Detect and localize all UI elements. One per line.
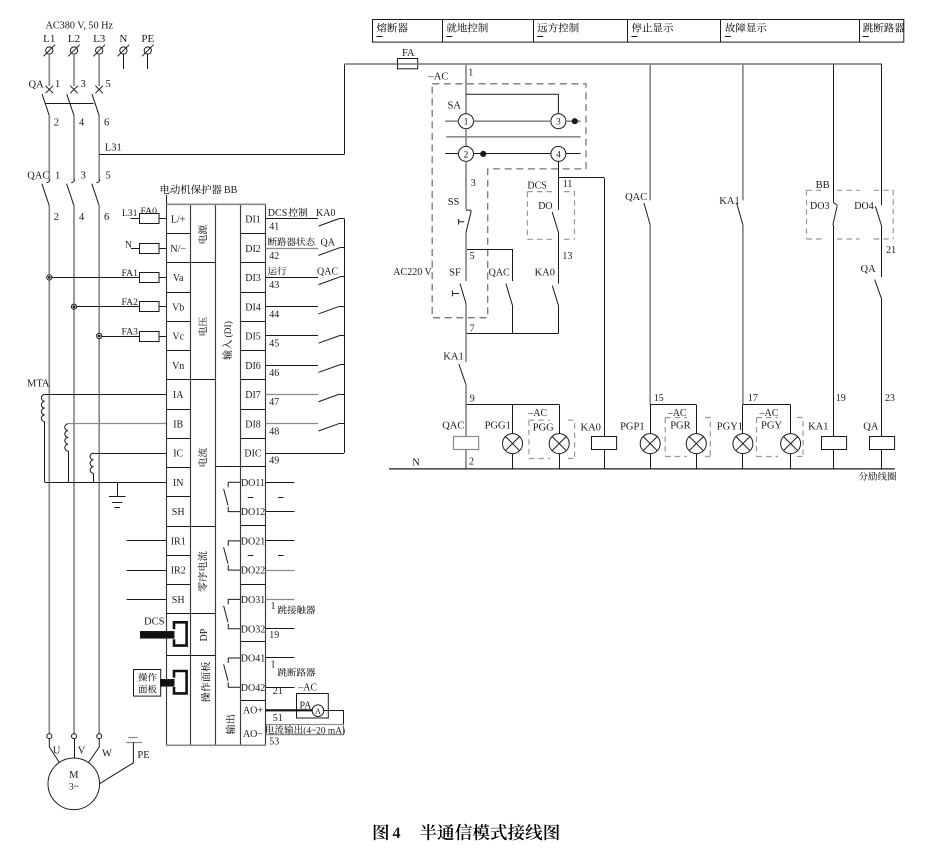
wire L31 riser to fuse FA [344, 64, 346, 154]
relay contact DO31-DO32 [224, 599, 241, 628]
svg-text:L2: L2 [68, 33, 80, 45]
svg-text:DO11: DO11 [241, 478, 265, 489]
svg-text:2: 2 [54, 118, 59, 129]
svg-text:17: 17 [748, 393, 758, 404]
svg-text:W: W [102, 749, 112, 760]
wire DI8 [266, 423, 319, 425]
wire QA contact to coil [881, 299, 883, 436]
SA contact circle 1 [459, 114, 474, 129]
SA linkage line [446, 136, 580, 138]
svg-text:PGG: PGG [533, 423, 554, 434]
wire DI2 [266, 248, 319, 250]
svg-text:AO−: AO− [243, 729, 263, 740]
svg-text:SH: SH [172, 595, 185, 606]
QA pole blade 5-6 [92, 94, 99, 116]
svg-text:45: 45 [269, 339, 279, 350]
svg-text:L3: L3 [93, 33, 106, 45]
svg-text:DI8: DI8 [245, 419, 261, 430]
svg-text:BB: BB [224, 185, 238, 196]
dashed box PGG [529, 420, 575, 458]
SA row1 wire [445, 120, 458, 122]
svg-text:48: 48 [269, 426, 279, 437]
wire col1 SA2 to SS [465, 161, 467, 209]
wire between SA poles [465, 129, 467, 147]
coil QAC [454, 437, 479, 450]
svg-text:IR2: IR2 [171, 566, 186, 577]
switch blade DI6 [319, 365, 340, 373]
wire DO3 to KA1 coil [833, 225, 835, 437]
svg-text:IA: IA [173, 390, 184, 401]
wire QA coil to N [881, 450, 883, 469]
wire to node 17 [742, 225, 744, 405]
dashed box BB DO3/DO4 [807, 190, 894, 239]
QA pole blade 1-2 [42, 94, 49, 116]
header cell label 停止显示 [632, 23, 642, 33]
svg-text:AC220 V: AC220 V [393, 267, 432, 278]
wire SA-4 down [558, 161, 560, 210]
wire PE lead [100, 742, 134, 784]
wire L3 QA to QAC [98, 116, 100, 181]
wire PA to AO- loop [324, 710, 344, 712]
svg-text:DI1: DI1 [245, 215, 261, 226]
wire KA0 coil to N [604, 450, 606, 469]
contact QAC blade [644, 203, 650, 225]
switch blade DI1 [319, 218, 340, 226]
ground symbol on IN [117, 482, 119, 496]
label 分励线圈 [859, 472, 868, 481]
wire phase C down to motor [98, 206, 100, 734]
svg-text:41: 41 [269, 222, 279, 233]
svg-text:L1: L1 [43, 33, 55, 45]
svg-text:–AC: –AC [297, 682, 317, 693]
CT A winding [41, 395, 44, 422]
svg-text:3: 3 [81, 171, 86, 182]
svg-text:SF: SF [449, 267, 461, 278]
switch blade DI8 [319, 423, 340, 431]
svg-text:Vn: Vn [172, 361, 184, 372]
svg-text:PGR: PGR [670, 421, 690, 432]
SA contact circle 4 [551, 146, 566, 161]
header cell label 跳断路器 [863, 23, 873, 33]
svg-text:V: V [78, 746, 86, 757]
svg-text:21: 21 [886, 245, 896, 256]
lamp PGR [696, 405, 698, 434]
wire KA1 coil to N [833, 450, 835, 469]
contact QAC branch wire [512, 249, 514, 281]
wire U lead [49, 739, 59, 763]
wire QAC coil to N [465, 450, 467, 469]
svg-text:DO3: DO3 [810, 201, 829, 212]
block outline top [166, 203, 265, 205]
svg-text:1: 1 [55, 171, 60, 182]
svg-text:DCS: DCS [527, 180, 546, 191]
svg-text:QAC: QAC [489, 267, 510, 278]
SA link line contacts 1-3 [466, 94, 558, 113]
svg-text:FA3: FA3 [122, 327, 139, 338]
svg-text:L/+: L/+ [171, 215, 186, 226]
svg-text:11: 11 [563, 179, 573, 190]
ammeter A [312, 705, 324, 717]
wire DO12 stub [266, 511, 295, 513]
lamp PGY [790, 405, 792, 434]
CT B winding [65, 424, 68, 451]
svg-text:DP: DP [199, 628, 210, 641]
SA row2 wire [445, 153, 458, 155]
svg-text:KA1: KA1 [443, 352, 463, 363]
wire V lead [74, 739, 76, 758]
svg-text:6: 6 [104, 118, 109, 129]
svg-text:PGP1: PGP1 [620, 422, 645, 433]
svg-text:4: 4 [393, 825, 401, 842]
svg-text:N: N [125, 239, 132, 250]
block outline verticals [166, 204, 168, 745]
tap node on phase C [97, 333, 102, 338]
column BB DO3: wire from bus [833, 64, 835, 203]
QAC fixed contact arc [96, 179, 99, 182]
wire L3 drop to QA [98, 54, 100, 86]
svg-text:DI5: DI5 [245, 332, 261, 343]
svg-text:–AC: –AC [428, 71, 449, 82]
label strip separators [190, 262, 215, 264]
lamp PGY1 [742, 405, 744, 434]
header cell label 远方控制 [538, 23, 548, 32]
wire DO22 stub [266, 570, 295, 572]
wire DO21 stub [266, 540, 295, 542]
wire L1 drop to QA [48, 54, 50, 86]
coil KA0 [592, 437, 617, 450]
terminal L1 (circle-slash) [46, 47, 53, 54]
svg-text:DCS: DCS [144, 617, 165, 628]
svg-text:N/−: N/− [170, 244, 186, 255]
vertical label 电源 [198, 235, 207, 243]
wire CT A secondary to IA [45, 394, 167, 396]
svg-text:42: 42 [269, 251, 279, 262]
tap node on phase A [47, 275, 52, 280]
wire DI3 [266, 277, 319, 279]
dashed box PGR [665, 418, 710, 457]
svg-text:AC380 V, 50 Hz: AC380 V, 50 Hz [46, 21, 114, 32]
motor terminal W [97, 734, 102, 739]
contact KA0 blade [552, 286, 558, 306]
vertical label 输出 [226, 725, 235, 735]
label 跳断路器 [278, 668, 287, 677]
wire DO to node13 [558, 233, 560, 284]
terminal L2 [70, 47, 77, 54]
QA pole contact X pin 3 [70, 86, 78, 94]
vertical label 操作面板 [201, 693, 210, 703]
svg-text:MTA: MTA [27, 379, 50, 390]
wire SF section [465, 249, 467, 281]
node 5 wire [466, 249, 512, 251]
CT C winding [90, 453, 93, 473]
svg-text:DI7: DI7 [245, 390, 261, 401]
contact DO (DCS) blade [552, 212, 558, 233]
wire CT C secondary return [93, 473, 95, 482]
motor protector block BB title 电动机保护器 BB [161, 184, 170, 193]
tap node on phase B [71, 304, 76, 309]
svg-text:AO+: AO+ [243, 705, 263, 716]
contact QA blade [875, 280, 882, 300]
svg-text:1: 1 [468, 68, 473, 79]
vertical label 零序电流 [198, 582, 207, 591]
relay contact DO41-DO42 [224, 658, 241, 687]
svg-text:IB: IB [173, 419, 183, 430]
svg-text:QA: QA [29, 79, 45, 90]
svg-text:5: 5 [470, 251, 475, 262]
wire to node 15 [649, 225, 651, 405]
contact KA1 blade [459, 364, 466, 384]
block title tick [166, 195, 168, 205]
SA contact circle 2 [459, 146, 474, 161]
wire L31 horizontal [99, 154, 344, 156]
svg-text:KA1: KA1 [719, 196, 739, 207]
svg-text:PGY: PGY [761, 421, 782, 432]
wire DI5 [266, 335, 319, 337]
wire DO42 stub [266, 687, 295, 689]
left section separators DP/panel [166, 613, 215, 615]
svg-text:1: 1 [271, 601, 276, 612]
svg-text:Vc: Vc [172, 332, 184, 343]
left terminal separators [166, 233, 190, 235]
svg-text:DI3: DI3 [245, 273, 261, 284]
svg-text:1: 1 [271, 659, 276, 670]
svg-text:49: 49 [269, 456, 279, 467]
svg-text:PE: PE [137, 750, 149, 761]
DI3 function label [268, 267, 277, 275]
svg-text:4: 4 [79, 212, 85, 223]
QA pole contact X pin 1 [46, 86, 54, 94]
QAC pole blade [92, 184, 99, 206]
svg-text:N: N [119, 33, 127, 45]
pushbutton SF blade [460, 284, 466, 305]
svg-text:21: 21 [273, 686, 283, 697]
svg-text:DO42: DO42 [241, 683, 265, 694]
svg-text:1: 1 [464, 118, 469, 128]
wire CT A secondary return [44, 422, 46, 483]
svg-text:44: 44 [269, 309, 279, 320]
wire CT C secondary to IC [94, 453, 167, 455]
column DO4/QA: wire from bus [881, 64, 883, 205]
wire L2 drop to QA [73, 54, 75, 86]
wire column1 bus to SA [465, 64, 467, 114]
terminal PE [144, 47, 151, 54]
svg-text:13: 13 [562, 251, 572, 262]
wire DO11 stub [266, 482, 295, 484]
svg-text:FA: FA [402, 48, 415, 59]
svg-text:DCS: DCS [268, 208, 287, 219]
wire AO+ to PA [266, 709, 313, 711]
junction dot right of contact 2 [481, 151, 486, 156]
trip coil QA [870, 437, 895, 450]
svg-text:9: 9 [470, 394, 475, 405]
wire IN bus [45, 482, 167, 484]
svg-text:QAC: QAC [27, 171, 49, 182]
node 17 wire [743, 404, 791, 406]
vertical label 输入(DI) [222, 350, 231, 360]
svg-text:PGY1: PGY1 [717, 422, 743, 433]
node 7 wire [466, 333, 559, 335]
node 9 wire [466, 404, 559, 406]
wire SH stub [127, 599, 167, 601]
svg-text:QAC: QAC [625, 192, 647, 203]
motor M 3~ [48, 758, 100, 810]
header cell label 故障显示 [725, 23, 735, 33]
wire PGG1 drop [512, 405, 514, 434]
wire to QAC coil [465, 405, 467, 437]
wire KA0 coil feed [604, 178, 606, 437]
svg-text:N: N [412, 458, 420, 469]
wire DO31 stub [266, 599, 295, 601]
wire CT B secondary to IB [68, 423, 166, 425]
polarity dashes DO11/DO12 [248, 497, 254, 499]
polarity dashes DO21/DO22 [248, 555, 254, 557]
column QAC display: wire from bus [649, 64, 651, 200]
wire DO4 to QA contact [881, 227, 883, 278]
svg-text:19: 19 [836, 393, 846, 404]
terminal L3 [96, 47, 103, 54]
svg-text:IR1: IR1 [171, 536, 186, 547]
wire DI4 [266, 306, 319, 308]
svg-text:15: 15 [654, 393, 664, 404]
wire DO32 stub [266, 628, 295, 630]
svg-text:–AC: –AC [527, 408, 547, 419]
node 15 wire [650, 404, 696, 406]
svg-text:SH: SH [172, 507, 185, 518]
svg-text:FA0: FA0 [141, 206, 158, 217]
relay contact DO21-DO22 [224, 541, 241, 570]
svg-text:5: 5 [106, 79, 111, 90]
cabinet boundary dashed (AC220V local control) [432, 84, 586, 318]
svg-text:Va: Va [173, 273, 184, 284]
svg-text:DO22: DO22 [241, 566, 265, 577]
wire SF to node7 [465, 305, 467, 334]
svg-text:4: 4 [79, 118, 85, 129]
contact QAC blade [506, 284, 512, 305]
input section separator [215, 466, 240, 468]
DI2 function label [268, 237, 277, 246]
svg-text:5: 5 [106, 171, 111, 182]
vertical label 电流 [198, 458, 207, 466]
QAC pole blade [42, 184, 49, 206]
svg-text:KA0: KA0 [535, 267, 555, 278]
svg-text:(DI): (DI) [223, 321, 234, 337]
svg-text:3: 3 [471, 178, 476, 189]
label 跳接触器 [278, 605, 287, 614]
switch blade DI5 [319, 335, 340, 343]
svg-text:51: 51 [273, 713, 283, 724]
svg-text:PGG1: PGG1 [485, 421, 511, 432]
svg-text:Vb: Vb [172, 302, 184, 313]
junction dot right of contact 3 [572, 119, 577, 124]
svg-text:KA0: KA0 [316, 208, 335, 219]
column KA1 display: wire from bus [742, 64, 744, 200]
svg-text:4: 4 [556, 150, 561, 160]
svg-text:IC: IC [173, 449, 183, 460]
svg-text:2: 2 [464, 150, 469, 160]
svg-text:M: M [69, 770, 79, 781]
motor terminal U [47, 734, 52, 739]
wire CT B secondary return [68, 451, 70, 482]
svg-text:2: 2 [469, 457, 474, 468]
svg-text:DI2: DI2 [245, 244, 261, 255]
wire DI6 [266, 365, 319, 367]
svg-text:IN: IN [173, 478, 184, 489]
svg-text:3~: 3~ [69, 783, 79, 793]
wire DI1 [266, 218, 319, 220]
svg-text:DO41: DO41 [241, 654, 265, 665]
header table: annotation strip [373, 20, 904, 43]
svg-text:53: 53 [269, 736, 279, 747]
svg-text:1: 1 [55, 79, 60, 90]
SS actuator [459, 219, 465, 225]
svg-text:SA: SA [448, 100, 462, 111]
switch blade DI3 [319, 277, 340, 285]
N bus [389, 468, 895, 470]
svg-text:PE: PE [141, 33, 154, 45]
control bus from L31 [344, 63, 881, 65]
SA contact circle 3 [551, 114, 566, 129]
header cell label 熔断器 [377, 23, 387, 33]
svg-text:DI4: DI4 [245, 302, 261, 313]
contact DO3 blade [833, 203, 838, 225]
wire phase A down to motor [48, 206, 50, 734]
wire N stub [123, 54, 125, 69]
svg-text:3: 3 [556, 118, 561, 128]
QA pole contact X pin 5 [95, 86, 103, 94]
svg-text:46: 46 [269, 368, 279, 379]
svg-text:L31: L31 [122, 208, 138, 219]
svg-text:DIC: DIC [244, 449, 262, 460]
header cell label 就地控制 [447, 23, 457, 33]
svg-text:2: 2 [54, 212, 59, 223]
svg-text:KA0: KA0 [581, 423, 601, 434]
svg-text:DI6: DI6 [245, 361, 261, 372]
svg-text:3: 3 [81, 79, 86, 90]
vertical label 电压 [198, 327, 207, 335]
lamp PGG [549, 434, 569, 454]
motor terminal V [72, 734, 77, 739]
dashed box PGY [757, 418, 804, 457]
header cell dashes [377, 36, 383, 38]
label frame 电流输出 [267, 725, 344, 735]
svg-text:QAC: QAC [317, 267, 338, 278]
wire QAC branch to node7 [512, 305, 514, 334]
SF actuator [452, 291, 459, 297]
switch blade DI7 [319, 394, 340, 402]
svg-text:DO12: DO12 [241, 507, 265, 518]
coil KA1 [822, 437, 847, 450]
svg-text:KA1: KA1 [808, 422, 828, 433]
switch blade DI4 [319, 306, 340, 314]
svg-text:DO31: DO31 [241, 595, 265, 606]
wire DIC [266, 453, 345, 455]
svg-text:A: A [315, 706, 322, 716]
wire IR2 stub [127, 570, 167, 572]
contact KA1 blade [737, 203, 743, 225]
lamp PGP1 [650, 405, 652, 434]
svg-text:DO4: DO4 [854, 201, 873, 212]
wire KA1 section [465, 334, 467, 363]
QA linkage bar [46, 103, 94, 105]
svg-text:19: 19 [269, 630, 279, 641]
wire KA1 to node9 [465, 384, 467, 405]
svg-text:SS: SS [448, 197, 460, 208]
wire phase B down to motor [73, 206, 75, 734]
wire IR1 stub [127, 540, 167, 542]
svg-text:DO32: DO32 [241, 624, 265, 635]
wire AO- return [266, 734, 344, 736]
QAC pole blade [67, 184, 74, 206]
